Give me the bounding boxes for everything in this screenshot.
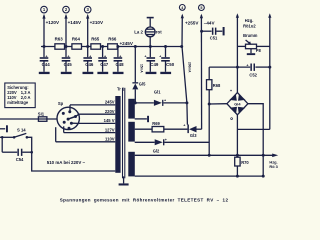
wire bridge bottom vertex down xyxy=(236,115,238,157)
chassis ground at C51 xyxy=(223,27,225,35)
junction dots on DC+ line xyxy=(236,66,271,69)
transformer Tr1 secondary winding 2 xyxy=(128,122,135,142)
svg-text:mittelträge: mittelträge xyxy=(7,100,29,105)
ground below C49 xyxy=(146,72,157,74)
svg-text:C45: C45 xyxy=(64,62,73,67)
node label +255V xyxy=(185,20,199,25)
terminal 5 (circled) xyxy=(199,5,205,11)
wire primary tap 127V xyxy=(64,126,116,132)
wire R69 to Gl3 xyxy=(164,128,188,130)
connector Sp pins xyxy=(62,110,77,129)
svg-text:–44V: –44V xyxy=(204,20,216,25)
svg-text:+: + xyxy=(45,54,47,58)
wire -44V vertical with arrow xyxy=(200,14,203,130)
wire Gl1 to +255V line xyxy=(163,102,187,104)
switch S14 xyxy=(13,128,28,139)
wire switch output to primary bottom xyxy=(32,152,116,171)
node C54 right xyxy=(30,151,33,154)
svg-text:+: + xyxy=(104,54,106,58)
svg-text:+: + xyxy=(164,99,166,103)
wire switch to corner xyxy=(27,137,32,152)
svg-text:+255V: +255V xyxy=(185,20,199,25)
wire primary tap 145V xyxy=(72,118,116,123)
fuse rating note box xyxy=(5,83,35,108)
wire arrow to terminal 3 xyxy=(86,14,89,47)
svg-text:R65: R65 xyxy=(91,36,100,41)
connector Sp (voltage selector) xyxy=(57,101,79,130)
capacitor C51 xyxy=(202,28,223,41)
svg-text:127V: 127V xyxy=(105,127,115,132)
diode Gl1 xyxy=(154,90,166,106)
wire right column down xyxy=(262,129,264,176)
wire from +245V rail down to Gl5 xyxy=(134,47,136,83)
ground below transformer xyxy=(119,176,129,185)
resistor R69 xyxy=(152,121,164,132)
svg-text:P8: P8 xyxy=(256,48,262,53)
svg-text:+: + xyxy=(144,54,146,58)
wire winding to Gl1 xyxy=(135,102,154,104)
wire DC+ line of bridge (horizontal, with C52) xyxy=(209,67,270,80)
svg-text:110V: 110V xyxy=(105,137,115,142)
ground below C44 xyxy=(39,72,50,74)
capacitor C52 xyxy=(246,64,257,78)
terminal 4 (circled) xyxy=(179,5,185,11)
svg-text:R66: R66 xyxy=(108,36,117,41)
ground below C47 xyxy=(97,72,108,74)
capacitor C45 xyxy=(62,47,73,72)
heater output arrow right xyxy=(268,13,271,129)
node label -44V xyxy=(204,20,216,25)
net label Hzg. Roe 3 xyxy=(269,159,278,169)
node C51 tap xyxy=(200,30,203,33)
node C54 branch xyxy=(1,136,4,139)
wire arrow to terminal 2 xyxy=(64,14,67,47)
diode Gl2 xyxy=(153,138,167,153)
transformer Tr1 secondary winding 1 xyxy=(128,99,135,119)
ground below P8 xyxy=(247,53,255,55)
svg-text:rot: rot xyxy=(156,30,162,35)
svg-text:+120V: +120V xyxy=(46,20,60,25)
ground below C50 xyxy=(160,72,171,74)
svg-text:15mA: 15mA xyxy=(140,64,144,73)
capacitor C49 xyxy=(144,47,159,72)
wire arrow to terminal 1 xyxy=(42,14,45,47)
fuse Si1 xyxy=(38,111,47,121)
capacitor C50 xyxy=(159,47,175,72)
net label Hzg. Roe1u2 xyxy=(243,18,256,28)
resistor R66 xyxy=(108,36,118,49)
capacitor C44 xyxy=(40,47,51,72)
svg-text:Gl1: Gl1 xyxy=(154,90,161,95)
terminal 1 (circled) xyxy=(41,6,48,13)
svg-text:+245V: +245V xyxy=(120,41,134,46)
wire mains line to fuse xyxy=(0,118,57,120)
svg-text:Brumm: Brumm xyxy=(243,33,258,38)
ground below C48 xyxy=(113,72,124,74)
wire heater line to Hzg Roe3 with arrow xyxy=(135,154,279,158)
svg-text:C46: C46 xyxy=(85,62,94,67)
svg-text:+: + xyxy=(119,54,121,58)
svg-text:R69: R69 xyxy=(152,121,160,126)
wire bottom rail xyxy=(135,175,264,177)
svg-text:S 14: S 14 xyxy=(17,128,26,133)
transformer Tr1 core xyxy=(123,88,125,179)
node on Hzg Roe3 line xyxy=(208,154,211,157)
svg-text:R63: R63 xyxy=(55,36,64,41)
svg-text:5: 5 xyxy=(200,6,202,10)
svg-text:Hzg.: Hzg. xyxy=(245,18,254,23)
chassis ground at centre tap xyxy=(147,116,149,122)
diode Gl3 xyxy=(183,123,201,137)
wire winding to R69 xyxy=(135,128,152,130)
wire bridge lower bus xyxy=(237,128,269,130)
bridge rectifier Gl4 xyxy=(227,88,248,120)
svg-text:Spannungen gemessen mit Röhren: Spannungen gemessen mit Röhrenvoltmeter … xyxy=(60,197,229,202)
terminal 3 (circled) xyxy=(84,6,91,13)
svg-text:R70: R70 xyxy=(241,160,249,165)
node label +245V xyxy=(120,41,134,46)
svg-text:245V: 245V xyxy=(105,100,115,105)
caption xyxy=(60,197,229,202)
wire primary tap 110V xyxy=(56,127,116,142)
wire Gl2 to right column xyxy=(164,141,209,143)
svg-text:R68: R68 xyxy=(213,83,221,88)
diode Gl5 xyxy=(132,82,146,103)
capacitor C46 xyxy=(83,47,94,72)
wire primary tap 220V xyxy=(76,109,116,117)
capacitor C48 xyxy=(114,47,125,72)
node label +120V xyxy=(46,20,60,25)
terminal 2 (circled) xyxy=(63,6,70,13)
svg-text:Rö1u2: Rö1u2 xyxy=(243,23,256,28)
capacitor C47 xyxy=(98,47,109,72)
heater output arrow left xyxy=(236,13,239,92)
svg-text:Gl2: Gl2 xyxy=(153,148,160,153)
node label +145V xyxy=(68,20,82,25)
svg-text:Gl3: Gl3 xyxy=(190,133,197,138)
junction dots on +245V rail xyxy=(43,45,184,48)
svg-text:145 V: 145 V xyxy=(104,118,115,123)
svg-text:C54: C54 xyxy=(16,157,24,162)
svg-text:C51: C51 xyxy=(210,36,218,41)
wire current label 216mA (vertical) xyxy=(140,64,144,73)
svg-text:+: + xyxy=(183,123,185,127)
wire mains line to switch xyxy=(0,136,14,138)
svg-text:C52: C52 xyxy=(249,73,257,78)
node R70 bottom xyxy=(236,154,239,178)
connector Sp selector bar xyxy=(68,117,75,120)
svg-text:C48: C48 xyxy=(116,62,125,67)
transformer Tr1 secondary winding 3 xyxy=(128,152,135,177)
resistor R65 xyxy=(91,36,101,49)
wire bridge right vertex loop xyxy=(248,104,263,130)
resistor R64 xyxy=(72,36,82,49)
svg-text:Si1: Si1 xyxy=(38,111,45,116)
node Gl5 / Gl1 junction xyxy=(134,101,137,104)
resistor R63 xyxy=(55,36,65,49)
svg-text:+: + xyxy=(246,64,248,68)
wire winding to Gl2 xyxy=(135,141,155,143)
potentiometer P8 xyxy=(237,40,269,53)
node right column crossings xyxy=(262,154,265,178)
node Gl1 output xyxy=(185,101,188,104)
mains terminal stub xyxy=(0,125,8,132)
node bridge left junction xyxy=(208,103,211,106)
wire R68 down to long line xyxy=(208,90,210,156)
svg-text:C49: C49 xyxy=(150,62,159,67)
transformer Tr1 xyxy=(117,87,125,92)
net label Brumm xyxy=(243,33,258,38)
wire label 510 mA bei 220V xyxy=(47,160,86,165)
svg-text:R64: R64 xyxy=(72,36,81,41)
svg-text:+: + xyxy=(165,138,167,142)
svg-text:C44: C44 xyxy=(42,62,51,67)
resistor R70 xyxy=(235,157,250,166)
svg-text:La 2: La 2 xyxy=(134,29,143,34)
svg-text:200mA: 200mA xyxy=(188,62,192,73)
node label +210V xyxy=(90,20,104,25)
svg-text:+145V: +145V xyxy=(68,20,82,25)
capacitor C54 xyxy=(2,137,32,162)
wire winding centre tap xyxy=(135,118,147,120)
wire to bridge left vertex xyxy=(209,103,227,105)
lamp La2 rot xyxy=(134,17,162,47)
wire main divider rail +245V xyxy=(41,46,182,48)
svg-text:+210V: +210V xyxy=(90,20,104,25)
svg-text:510 mA bei 220V ~: 510 mA bei 220V ~ xyxy=(47,160,86,165)
ground below C46 xyxy=(83,72,94,74)
svg-text:C47: C47 xyxy=(100,62,109,67)
svg-text:+: + xyxy=(159,54,161,58)
transformer Tr1 primary winding xyxy=(115,96,120,173)
svg-text:Sp: Sp xyxy=(58,101,64,106)
ground below C45 xyxy=(61,72,72,74)
svg-text:+: + xyxy=(67,54,69,58)
wire R70 to bottom rail xyxy=(236,166,238,176)
svg-text:220V: 220V xyxy=(105,109,115,114)
resistor R68 xyxy=(207,80,222,90)
svg-text:+: + xyxy=(89,54,91,58)
svg-text:Gl4: Gl4 xyxy=(234,101,241,106)
svg-text:Rö 3: Rö 3 xyxy=(269,164,278,169)
wire current label (vertical) xyxy=(188,62,192,73)
wire +255V vertical with arrow xyxy=(181,14,188,125)
svg-text:C50: C50 xyxy=(166,62,175,67)
svg-text:Gl5: Gl5 xyxy=(139,82,146,87)
svg-text:Tr 1: Tr 1 xyxy=(117,87,125,92)
wire primary tap 245V xyxy=(70,100,115,112)
